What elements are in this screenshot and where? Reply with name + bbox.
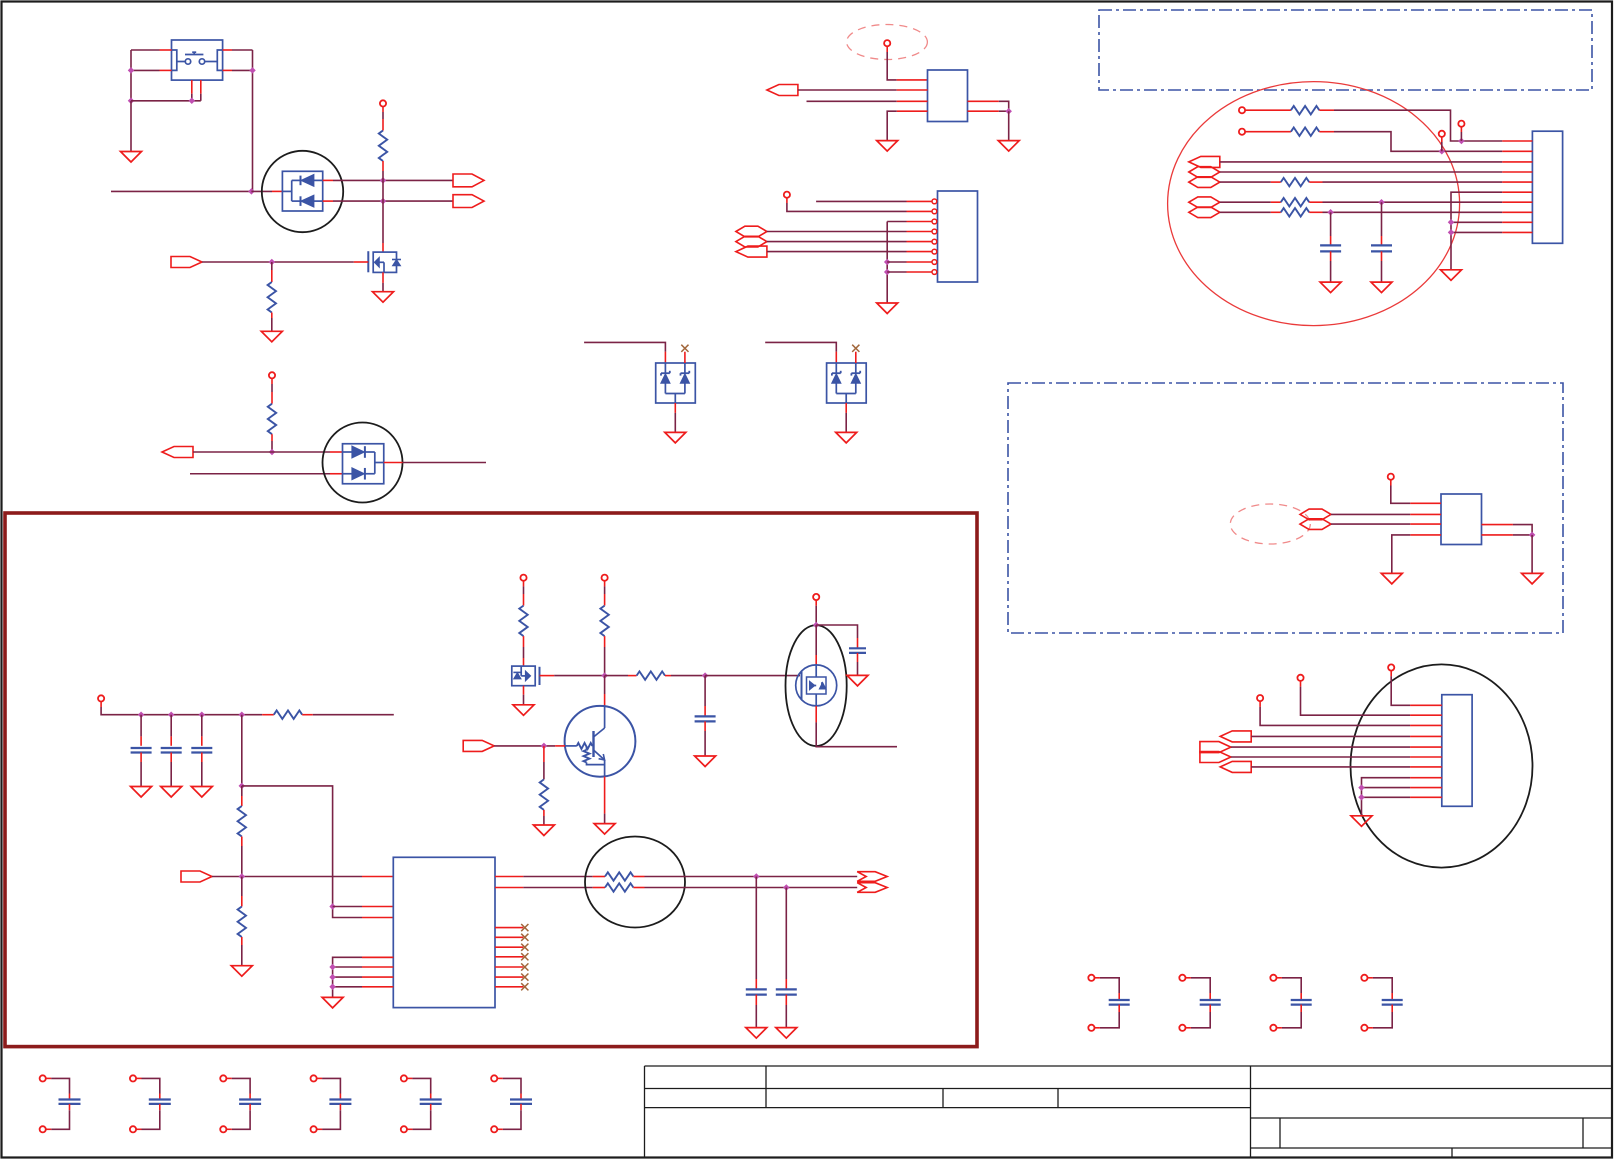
wire U1 pin1 (886, 46, 888, 52)
junction (541, 743, 548, 750)
resistor R16 (543, 746, 545, 762)
wire collector (604, 676, 606, 694)
wire U1 pin3 (807, 100, 897, 102)
TVS ground (674, 403, 676, 413)
capacitor with terminals 2 of 6 (130, 1075, 136, 1081)
wire (1460, 127, 1462, 132)
output arrow (857, 883, 887, 893)
wire D1 out2 (323, 200, 333, 202)
junction (1005, 108, 1012, 115)
input arrow (162, 447, 193, 458)
highlight circle (585, 837, 685, 928)
TVS diode array (656, 363, 696, 403)
ground (1351, 816, 1372, 827)
ground (261, 331, 282, 342)
junction (380, 177, 387, 184)
wire base (494, 745, 555, 747)
input arrow (1220, 731, 1251, 742)
junction (239, 783, 246, 790)
junction (1439, 148, 1446, 155)
transistor Q3 (565, 706, 636, 777)
wire U3 outB (1482, 534, 1513, 536)
wire J2 pin6 (1231, 756, 1410, 758)
wire J2 pin4 (1251, 735, 1410, 737)
wire branch (242, 786, 362, 918)
bidir arrow (1189, 197, 1220, 208)
wire into TVS (584, 342, 665, 351)
resistor R14 (523, 581, 525, 587)
output arrow (1200, 752, 1231, 763)
bidir arrow (736, 226, 767, 237)
dashed ellipse callout (1230, 504, 1310, 544)
terminal (1239, 129, 1245, 135)
wire U1 outB (968, 110, 999, 112)
emitter to ground (604, 777, 606, 814)
junction (248, 188, 255, 195)
resistor R11 (241, 877, 243, 897)
capacitor with terminals 5 of 6 (401, 1075, 407, 1081)
wire U3 outA (1482, 524, 1513, 526)
junction (753, 873, 760, 880)
ground (231, 966, 252, 977)
junction (189, 98, 196, 105)
ground (513, 705, 534, 716)
highlight ellipse (1351, 664, 1533, 867)
capacitor C1 (1330, 212, 1332, 236)
dash-dot box (1099, 10, 1592, 90)
input arrow (181, 871, 212, 882)
wire power rail (100, 702, 102, 708)
capacitor C12 (704, 676, 706, 706)
junction (269, 259, 276, 266)
ground (776, 1028, 797, 1039)
junction (1327, 209, 1334, 216)
ground (1371, 282, 1392, 293)
ground (998, 141, 1019, 152)
wire Q2 gate (540, 675, 555, 677)
bidir arrow (1300, 509, 1331, 520)
capacitor with terminals 1 of 6 (40, 1075, 46, 1081)
connector J1 (1532, 131, 1562, 243)
junction (1378, 199, 1385, 206)
resistor R4 row (1245, 109, 1291, 111)
terminal (1239, 107, 1245, 113)
capacitor C11 (785, 888, 787, 980)
ground trunk U4 lower pins (333, 957, 394, 997)
dashed ellipse callout (847, 25, 928, 60)
capacitor to ground (201, 715, 203, 737)
ground (594, 824, 615, 835)
wire (815, 600, 817, 606)
resistor R3 (271, 378, 273, 384)
resistor R2 (271, 262, 273, 270)
wire net A horizontal (111, 190, 251, 192)
wire U3 pin3 (1331, 523, 1410, 525)
wire J1 pin4 (1220, 171, 1502, 173)
junction (199, 711, 206, 718)
ground (1441, 270, 1462, 281)
terminal (380, 100, 386, 106)
highlight ellipse (786, 625, 847, 746)
terminal (602, 575, 608, 581)
terminal (269, 372, 275, 378)
output arrow (453, 195, 484, 208)
wire U4 pin2 (333, 906, 362, 908)
wire J2 pin5 (1231, 746, 1410, 748)
junction (783, 884, 790, 891)
MOSFET Q2 (512, 666, 535, 686)
wire U4 out1 (495, 876, 523, 878)
ground (121, 152, 142, 163)
wire + resistor R8 J1 pin8 (1220, 211, 1271, 213)
junction (1458, 138, 1465, 145)
wire stub pin8 (887, 271, 906, 273)
junction (249, 67, 256, 74)
ground (373, 292, 394, 303)
capacitor with terminals 4 of 4 (1361, 975, 1367, 981)
wire U4 pin1 (212, 876, 362, 878)
input arrow (767, 85, 798, 96)
resistor R15 (604, 581, 606, 587)
wire U2 pin1 (816, 200, 906, 202)
dual diode D2 (323, 423, 403, 503)
wire net B (193, 451, 330, 453)
wire D2 out (384, 462, 403, 464)
wire U1 pin4 to ground (897, 110, 928, 112)
bidir arrow (1189, 177, 1220, 188)
capacitor with terminals 6 of 6 (491, 1075, 497, 1081)
junction (329, 903, 336, 910)
wire U1 pin2 (798, 89, 897, 91)
terminal (1388, 474, 1394, 480)
wire cap branch (816, 625, 857, 638)
wire U2 pin6 (767, 251, 907, 253)
wire to Q1 drain (382, 201, 384, 243)
Q1 source to ground (382, 272, 384, 283)
wire J1 pin3 (1220, 161, 1502, 163)
terminal (98, 695, 104, 701)
terminal (520, 575, 526, 581)
ground (1381, 573, 1402, 584)
input arrow (1189, 156, 1220, 167)
terminal (1458, 121, 1464, 127)
input arrow (463, 740, 494, 751)
TVS diode array (827, 363, 867, 403)
junction (813, 622, 820, 629)
terminal (784, 192, 790, 198)
wire + resistor R7 J1 pin7 (1220, 201, 1271, 203)
title block (645, 1065, 1613, 1067)
junction (138, 711, 145, 718)
ground (877, 303, 898, 314)
dark red section frame (5, 513, 977, 1047)
junction (269, 449, 276, 456)
wire (1441, 137, 1443, 142)
bidir arrow (1300, 519, 1331, 530)
ground (1522, 573, 1543, 584)
resistor R10 (241, 786, 243, 796)
ground (533, 825, 554, 836)
ground (161, 787, 182, 798)
ground (877, 141, 898, 152)
junction (128, 67, 135, 74)
input arrow (1220, 761, 1251, 772)
U2 pin circles and stubs (907, 200, 932, 202)
capacitor C10 (755, 877, 757, 980)
input arrow (736, 246, 767, 257)
IC U3 (1441, 494, 1482, 545)
ground (131, 787, 152, 798)
wire J2 pin7 (1251, 766, 1410, 768)
push button SW1 (172, 40, 223, 80)
U4 no-connect pins (495, 927, 523, 929)
ground (695, 756, 716, 767)
wire net C (190, 473, 330, 475)
capacitor with terminals 1 of 4 (1088, 975, 1094, 981)
resistor R13 (593, 887, 605, 889)
resistor R12 (593, 876, 605, 878)
MOSFET Q4 in circle (815, 625, 817, 655)
input arrow (171, 257, 202, 268)
wire U3 pin4 to ground (1410, 534, 1441, 536)
bidir arrow (736, 236, 767, 247)
junction (239, 711, 246, 718)
output arrow (1200, 742, 1231, 753)
ground (191, 787, 212, 798)
ground trunk pins 8 9 10 (1362, 778, 1411, 816)
capacitor to ground (140, 715, 142, 737)
junction (702, 672, 709, 679)
dash-dot box 2 (1008, 383, 1563, 633)
wire U3 pin2 (1331, 513, 1410, 515)
terminal (1257, 695, 1263, 701)
Q2 drain to ground (523, 686, 525, 695)
junction (601, 672, 608, 679)
IC U1 (928, 70, 968, 122)
terminal (1439, 131, 1445, 137)
wire into TVS (765, 342, 836, 351)
terminal (1297, 675, 1303, 681)
ground (1320, 282, 1341, 293)
wire stub pin7 (887, 261, 906, 263)
IC U2 (938, 191, 978, 282)
J2 pin stubs (1410, 704, 1442, 706)
junction (1529, 532, 1536, 539)
wire to ground (1531, 535, 1533, 574)
wire bottom horizontal (131, 100, 201, 102)
wire U2 pin2 (786, 198, 788, 203)
wire (241, 715, 243, 786)
Q4 source wire (815, 706, 817, 723)
junction (884, 269, 891, 276)
wire D1 out1 (323, 179, 333, 181)
dual diode D1 (262, 151, 343, 232)
junction (884, 259, 891, 266)
junction (168, 711, 175, 718)
bidir arrow (1189, 207, 1220, 218)
capacitor with terminals 3 of 6 (220, 1075, 226, 1081)
terminal (813, 594, 819, 600)
wire left vertical (130, 50, 132, 101)
wire U3 pin1 (1390, 480, 1392, 486)
TVS ground (845, 403, 847, 413)
wire right vertical (252, 50, 254, 191)
wire U2 pin5 (767, 241, 907, 243)
wire U2 pin4 (767, 231, 907, 233)
ground (847, 675, 868, 686)
ground (322, 997, 343, 1008)
red highlight ellipse (1168, 82, 1460, 326)
terminal (1388, 664, 1394, 670)
resistor R5 row (1245, 131, 1291, 133)
SW1 pin wires (131, 49, 160, 51)
resistor R9 (262, 714, 274, 716)
wire + resistor R6 J1 pin5 (1220, 181, 1271, 183)
capacitor to ground (170, 715, 172, 737)
ground trunk pins 6 9 10 (1451, 192, 1502, 270)
junction (128, 98, 135, 105)
capacitor with terminals 3 of 4 (1270, 975, 1276, 981)
bidir arrow (1189, 167, 1220, 178)
junction (380, 198, 387, 205)
wire J2 pin2 (1300, 681, 1302, 687)
wire J2 pin3 (1259, 701, 1261, 707)
capacitor with terminals 2 of 4 (1179, 975, 1185, 981)
terminal (884, 40, 890, 46)
IC U4 (393, 857, 495, 1007)
junction (239, 873, 246, 880)
wire U1 outA (968, 100, 999, 102)
ground (746, 1028, 767, 1039)
wire to Q4 gate (705, 675, 800, 677)
wire to ground (130, 101, 132, 152)
J1 pin stubs (1502, 140, 1532, 142)
wire U2 pin3 trunk (887, 221, 906, 223)
connector J2 (1442, 695, 1472, 807)
capacitor with terminals 4 of 6 (311, 1075, 317, 1081)
capacitor C2 (1381, 202, 1383, 236)
wire to ground (1008, 111, 1010, 140)
wire + resistor R17 (605, 675, 628, 677)
wire (382, 180, 384, 201)
MOSFET Q1 (373, 252, 396, 272)
output arrow (857, 872, 887, 882)
wire U4 out2 (495, 887, 523, 889)
output arrow (453, 174, 484, 187)
capacitor C13 (857, 638, 859, 648)
resistor R1 (382, 107, 384, 113)
wire gate net (202, 261, 354, 263)
wire J2 pin1 (1390, 671, 1392, 677)
